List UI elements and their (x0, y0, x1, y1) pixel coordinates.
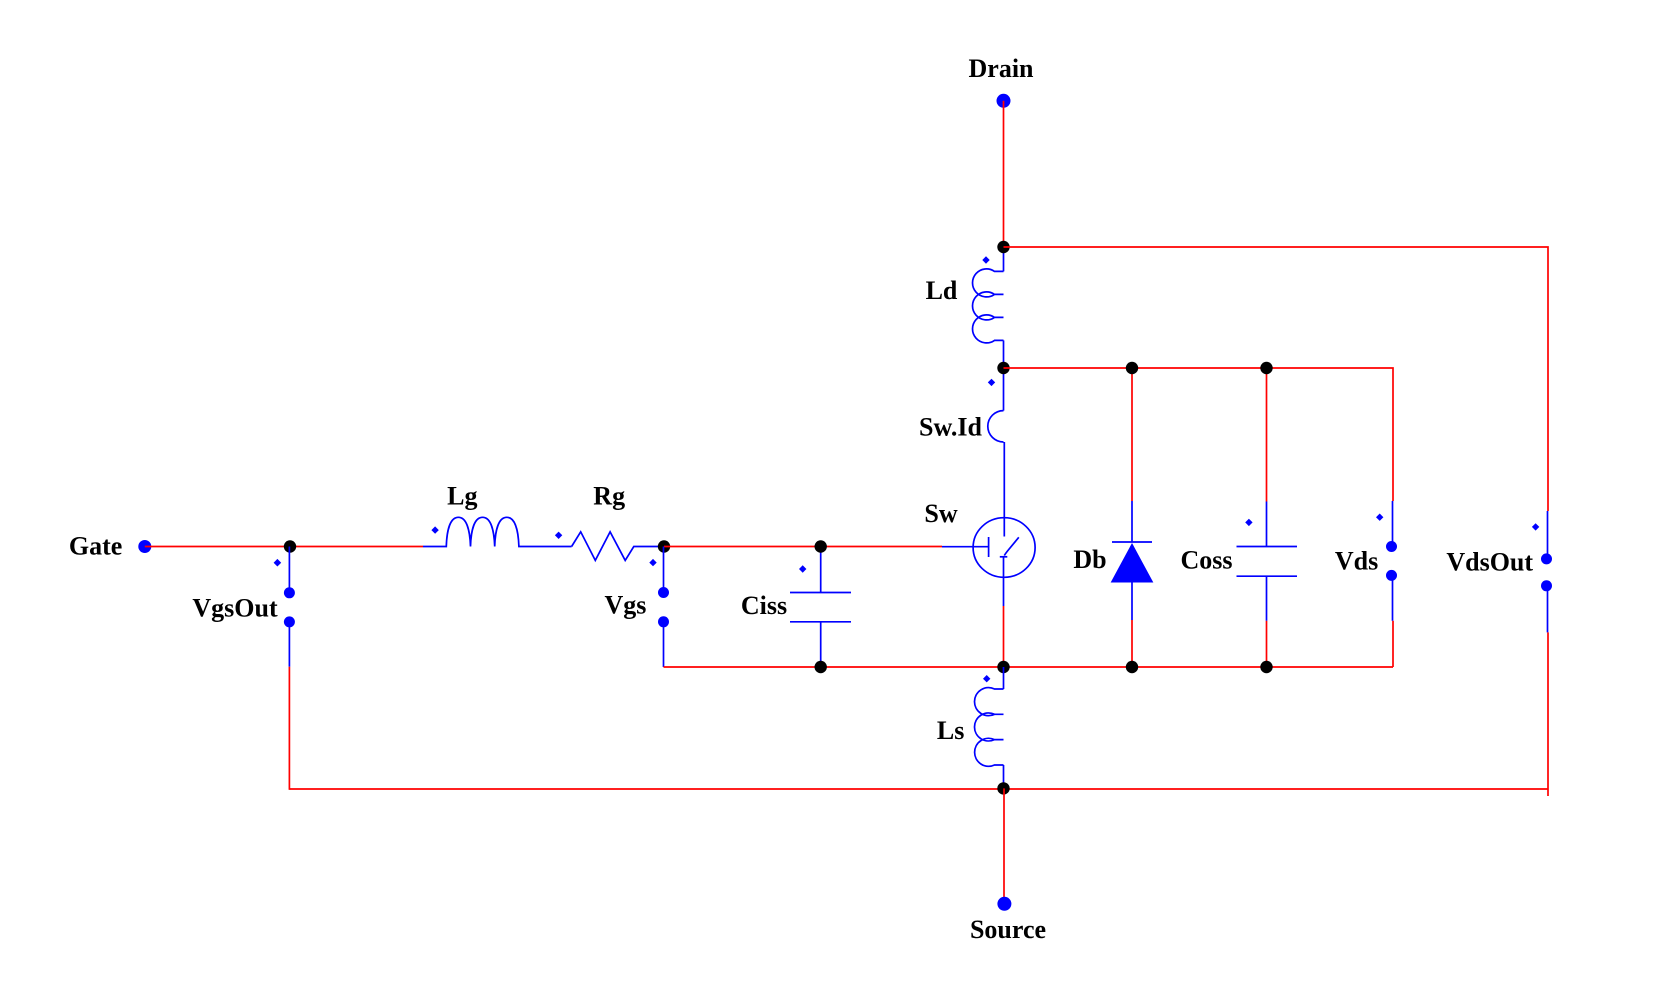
wire Gate to VgsOut junction (145, 546, 290, 548)
node junction Ciss top (815, 540, 827, 552)
node junction Sw bottom rail (997, 661, 1009, 673)
node Gate terminal (69, 532, 151, 561)
inductor Lg (423, 482, 572, 547)
capacitor Ciss (741, 547, 851, 668)
node junction Ld top (997, 241, 1009, 253)
probe Vgs (604, 547, 669, 668)
wire junction to Lg (290, 546, 423, 548)
inductor Ls (937, 667, 1004, 788)
capacitor Coss (1180, 368, 1297, 667)
node junction Coss bottom (1260, 661, 1272, 673)
node junction Ls bottom (997, 782, 1009, 794)
probe Vds (1335, 501, 1397, 621)
node junction Ld bottom (997, 362, 1009, 374)
svg-text:Sw.Id: Sw.Id (919, 413, 982, 442)
node Source terminal (970, 897, 1046, 944)
svg-text:Drain: Drain (969, 54, 1035, 83)
svg-text:Vgs: Vgs (604, 591, 646, 620)
svg-text:Coss: Coss (1180, 546, 1232, 575)
svg-text:Ld: Ld (926, 276, 958, 305)
svg-text:VdsOut: VdsOut (1446, 548, 1533, 577)
wire drain inner rail (1004, 368, 1394, 501)
node junction Db top (1126, 362, 1138, 374)
switch Sw (924, 442, 1035, 606)
svg-text:Db: Db (1073, 545, 1106, 574)
ammeter Sw.Id (919, 368, 1003, 442)
wire Sw bottom to rail (1003, 606, 1005, 667)
svg-text:Lg: Lg (447, 482, 477, 511)
wire VgsOut down leg (288, 667, 290, 790)
wire Source leg (1003, 788, 1005, 898)
svg-text:Rg: Rg (593, 482, 625, 511)
wire Vds bottom leg (1392, 621, 1394, 667)
wire VdsOut bottom leg (1547, 632, 1549, 796)
wire Drain to top junction (1003, 101, 1005, 247)
inductor Ld (926, 247, 1004, 368)
wire bottom rail (289, 788, 1548, 790)
svg-text:Ciss: Ciss (741, 591, 787, 620)
node Drain terminal (969, 54, 1035, 108)
probe VgsOut (192, 547, 295, 667)
probe VdsOut (1446, 511, 1552, 632)
wire inner rail (source node) (664, 666, 1394, 668)
wire top rail (1004, 247, 1549, 511)
svg-text:Gate: Gate (69, 532, 122, 561)
svg-text:VgsOut: VgsOut (192, 594, 278, 623)
diode Db (1073, 368, 1152, 667)
svg-text:Source: Source (970, 915, 1046, 944)
node junction Vgs/gate row (658, 540, 670, 552)
resistor Rg (555, 482, 664, 561)
wire gate row to Sw (664, 546, 942, 548)
svg-text:Vds: Vds (1335, 547, 1378, 576)
node junction at gate/VgsOut (284, 540, 296, 552)
svg-text:Sw: Sw (924, 499, 957, 528)
svg-text:Ls: Ls (937, 716, 964, 745)
node junction Coss top (1260, 362, 1272, 374)
node junction Db bottom (1126, 661, 1138, 673)
node junction Ciss bottom (815, 661, 827, 673)
